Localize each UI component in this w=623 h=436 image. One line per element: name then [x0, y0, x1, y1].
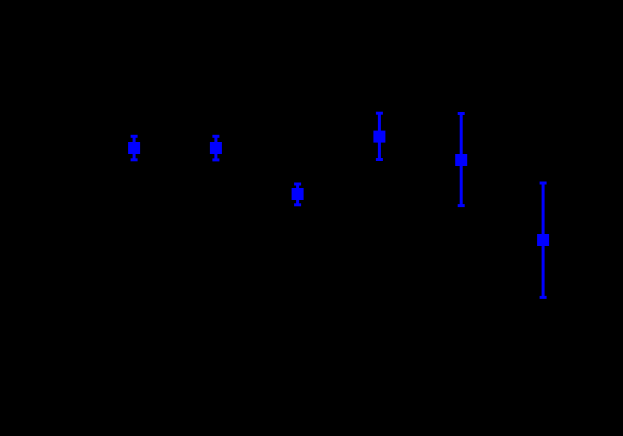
- data point 3 error bar: [294, 183, 301, 207]
- data point 1 error bar: [131, 135, 138, 162]
- data point 2 marker: [210, 142, 222, 154]
- data point 5 error bar: [458, 112, 465, 207]
- data point 2 error bar: [212, 135, 219, 162]
- data point 6 marker: [537, 234, 549, 246]
- data point 3 marker: [292, 188, 304, 200]
- data point 1 marker: [128, 142, 140, 154]
- data point 5 marker: [455, 154, 467, 166]
- data point 4 marker: [373, 131, 385, 143]
- data point 6 error bar: [540, 182, 547, 299]
- data point 4 error bar: [376, 112, 383, 161]
